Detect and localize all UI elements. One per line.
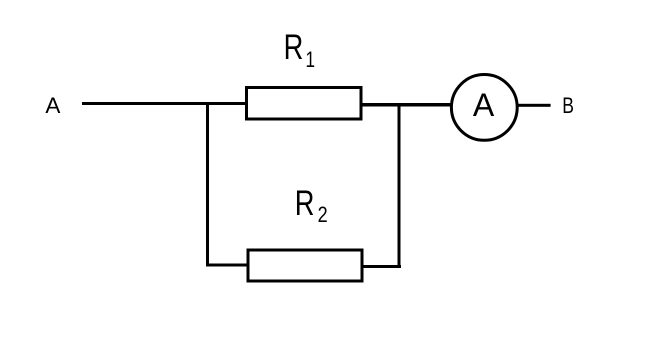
wire ammeter to B (517, 104, 551, 107)
resistor R2 (248, 250, 362, 281)
wire R2 to bottom right (362, 265, 401, 268)
svg-text:2: 2 (318, 203, 328, 227)
svg-text:R: R (295, 184, 315, 223)
svg-text:A: A (45, 93, 60, 118)
wire R1 to ammeter (362, 103, 451, 107)
wire A to junction and R1 left terminal (82, 102, 246, 105)
label R2 (295, 184, 328, 228)
svg-text:R: R (284, 28, 304, 67)
wire bottom left to R2 (206, 264, 248, 267)
svg-text:B: B (562, 94, 574, 119)
svg-text:1: 1 (306, 48, 316, 73)
label R1 (284, 28, 315, 72)
wire right vertical branch (398, 105, 401, 268)
ammeter U1 (451, 75, 517, 141)
wire left vertical branch (206, 103, 209, 267)
svg-text:A: A (473, 87, 495, 123)
resistor R1 (247, 88, 362, 120)
